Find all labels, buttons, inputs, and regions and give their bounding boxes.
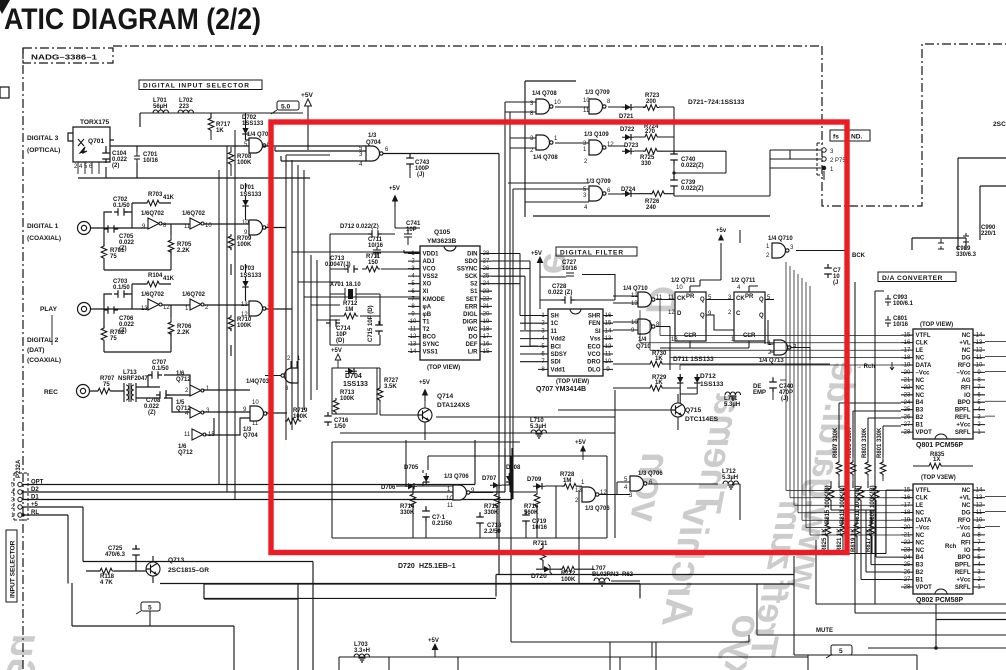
transistor Q714 DTA124XS — [418, 408, 432, 422]
svg-text:Q713: Q713 — [168, 557, 184, 564]
svg-text:(COAXIAL): (COAXIAL) — [27, 235, 61, 242]
svg-text:13: 13 — [631, 301, 638, 307]
svg-text:NC: NC — [916, 378, 925, 384]
svg-text:41K: 41K — [163, 195, 175, 201]
svg-text:11: 11 — [252, 421, 259, 427]
svg-text:+5V: +5V — [301, 92, 314, 99]
svg-text:X701 18.10: X701 18.10 — [330, 282, 361, 288]
wire optical row — [106, 113, 249, 178]
wire horizontal feeders to Q705 — [286, 155, 420, 320]
svg-text:Vdd1: Vdd1 — [551, 367, 566, 373]
svg-text:EMP: EMP — [753, 390, 766, 396]
svg-text:+VL: +VL — [959, 496, 971, 502]
svg-text:B3: B3 — [916, 563, 924, 569]
svg-text:(TOP VIEW): (TOP VIEW) — [920, 322, 953, 328]
svg-text:XO: XO — [423, 282, 432, 288]
svg-text:+VL: +VL — [959, 341, 971, 347]
svg-text:41K: 41K — [163, 276, 175, 282]
svg-text:DIGITAL 1: DIGITAL 1 — [27, 223, 59, 230]
svg-text:(D): (D) — [336, 338, 344, 344]
svg-text:330/6.3: 330/6.3 — [956, 252, 977, 258]
svg-text:D706: D706 — [381, 485, 396, 491]
svg-text:+5V: +5V — [531, 251, 542, 257]
svg-text:10: 10 — [242, 220, 249, 226]
svg-text:(J: (J — [833, 280, 838, 286]
svg-text:–Vcc: –Vcc — [916, 370, 931, 376]
svg-text:11: 11 — [447, 503, 454, 509]
svg-text:11: 11 — [668, 295, 675, 301]
IC Q707 YM3414B — [548, 309, 603, 376]
svg-text:1/3 Q706: 1/3 Q706 — [585, 506, 610, 512]
svg-text:D721: D721 — [619, 114, 634, 120]
gate 1/4 Q708 b — [536, 135, 553, 150]
svg-text:ERR: ERR — [465, 304, 478, 310]
wire crystal cluster — [330, 228, 420, 345]
svg-text:(J): (J) — [417, 172, 424, 178]
svg-text:SSYNC: SSYNC — [457, 267, 478, 273]
svg-text:1SS133: 1SS133 — [343, 381, 368, 388]
svg-text:SDSY: SDSY — [551, 352, 567, 358]
svg-text:2.2K: 2.2K — [177, 330, 190, 336]
connector pin 3 D1 — [18, 497, 22, 501]
svg-text:2.2K: 2.2K — [177, 248, 190, 254]
svg-text:+5V: +5V — [575, 440, 586, 446]
label fs ND boxes — [830, 130, 847, 141]
svg-text:BPO: BPO — [957, 555, 970, 561]
svg-text:CLR: CLR — [743, 333, 756, 339]
svg-text:1/3 Q709: 1/3 Q709 — [585, 90, 610, 96]
svg-text:B1: B1 — [916, 578, 924, 584]
svg-text:R807 330K: R807 330K — [833, 427, 839, 458]
svg-text:BCI: BCI — [551, 344, 562, 350]
svg-text:12: 12 — [163, 305, 170, 311]
svg-text:B4: B4 — [916, 555, 924, 561]
gate 1/3 Q704 b — [250, 406, 267, 421]
wire vertical bus group A — [219, 130, 235, 500]
svg-text:BCO: BCO — [423, 335, 437, 341]
wire D/A box outline — [855, 282, 1006, 613]
svg-text:+5V: +5V — [419, 380, 430, 386]
svg-text:Q801 PCM56P: Q801 PCM56P — [916, 442, 963, 449]
svg-text:BPFL: BPFL — [955, 408, 971, 414]
svg-text:Q: Q — [700, 313, 705, 319]
svg-text:AG: AG — [962, 533, 971, 539]
svg-text:1C: 1C — [551, 321, 559, 327]
svg-text:VSS2: VSS2 — [423, 274, 439, 280]
svg-text:C: C — [736, 311, 741, 317]
svg-text:D: D — [677, 311, 682, 317]
svg-text:24: 24 — [904, 555, 911, 561]
svg-text:150: 150 — [368, 260, 379, 266]
svg-text:5.3µH: 5.3µH — [722, 475, 738, 481]
svg-text:D/A CONVERTER: D/A CONVERTER — [882, 275, 943, 282]
svg-text:D712 0.022(Z): D712 0.022(Z) — [340, 224, 379, 230]
svg-text:Q704: Q704 — [366, 140, 381, 146]
gate 1/4 Q703 b — [249, 220, 266, 235]
Q802 pin stubs — [901, 490, 985, 587]
section label DIGITAL FILTER — [556, 247, 637, 256]
wire to P752 — [770, 150, 824, 196]
connector J DIGITAL1 RCA — [78, 222, 91, 235]
svg-text:10: 10 — [631, 320, 638, 326]
svg-text:DTC114ES: DTC114ES — [685, 416, 719, 423]
svg-text:Q710: Q710 — [636, 344, 651, 350]
svg-text:0.022 (Z): 0.022 (Z) — [548, 290, 572, 296]
svg-text:DIGITAL 2: DIGITAL 2 — [27, 337, 59, 344]
svg-text:Q707 YM3414B: Q707 YM3414B — [536, 386, 586, 393]
svg-text:10/16: 10/16 — [562, 266, 578, 272]
svg-text:(OPTICAL): (OPTICAL) — [27, 147, 60, 154]
board name box NADG-3386-1 — [23, 48, 113, 63]
svg-text:ATIC DIAGRAM (2/2): ATIC DIAGRAM (2/2) — [4, 3, 261, 36]
svg-text:1/2 Q711: 1/2 Q711 — [731, 278, 756, 284]
svg-text:11: 11 — [551, 329, 558, 335]
svg-text:Q712: Q712 — [178, 450, 193, 456]
svg-text:INPUT SELECTOR: INPUT SELECTOR — [10, 540, 17, 598]
svg-text:Vss: Vss — [590, 337, 601, 343]
svg-text:IO: IO — [964, 393, 971, 399]
svg-text:DG: DG — [962, 511, 971, 517]
svg-text:0.1/50: 0.1/50 — [113, 285, 130, 291]
svg-text:D703: D703 — [240, 266, 255, 272]
svg-text:1/6Q702: 1/6Q702 — [182, 211, 206, 217]
svg-text:SDO: SDO — [464, 259, 477, 265]
svg-text:RFI: RFI — [961, 540, 971, 546]
svg-text:BCK: BCK — [852, 253, 866, 259]
svg-text:10: 10 — [676, 285, 683, 291]
svg-text:Q714: Q714 — [437, 393, 453, 400]
svg-text:D705: D705 — [404, 465, 419, 471]
connector pin 5 OPT — [18, 482, 22, 486]
svg-text:P232A: P232A — [16, 459, 22, 478]
svg-text:D708: D708 — [506, 465, 521, 471]
svg-text:SYNC: SYNC — [423, 342, 440, 348]
svg-text:NC: NC — [962, 503, 971, 509]
svg-text:CK: CK — [677, 296, 686, 302]
svg-text:10/16: 10/16 — [368, 243, 384, 249]
connector stub box at left edge — [0, 87, 9, 98]
svg-text:(2): (2) — [112, 163, 119, 169]
svg-text:100/6.1: 100/6.1 — [893, 301, 914, 307]
connector pin 2 +5 — [18, 505, 22, 509]
svg-text:2 4 5 6: 2 4 5 6 — [74, 164, 93, 170]
svg-text:R104: R104 — [148, 273, 163, 279]
svg-text:3.3»H: 3.3»H — [354, 648, 370, 654]
wire long horizontal under optical — [78, 177, 310, 179]
diode D712 a — [694, 374, 700, 386]
frame border dash-dot top — [113, 45, 822, 47]
section label INPUT SELECTOR vertical — [6, 530, 17, 602]
svg-text:0.1/50: 0.1/50 — [113, 203, 130, 209]
svg-text:5.0: 5.0 — [281, 104, 290, 111]
junction dot bottom right — [934, 646, 938, 650]
svg-text:φA: φA — [423, 304, 432, 310]
svg-text:23: 23 — [483, 289, 490, 295]
svg-text:FEN: FEN — [589, 321, 601, 327]
svg-text:Q802 PCM58P: Q802 PCM58P — [916, 597, 963, 604]
diode D711 a — [677, 374, 683, 386]
svg-text:ADJ: ADJ — [423, 259, 435, 265]
diode D704 1SS133 with box — [332, 368, 377, 414]
svg-text:VPOT: VPOT — [916, 430, 933, 436]
Q707 pin stubs — [538, 316, 613, 370]
connector J PLAY RCA — [78, 303, 91, 316]
svg-text:Q715: Q715 — [685, 407, 701, 414]
svg-text:(TOP VIEW): (TOP VIEW) — [556, 379, 589, 385]
wire Q801 right stubs — [985, 342, 1006, 527]
svg-text:12: 12 — [668, 310, 675, 316]
svg-text:NC: NC — [962, 348, 971, 354]
svg-text:SCK: SCK — [465, 274, 478, 280]
connector pin 1 RL — [18, 513, 22, 517]
svg-text:C715 10P (D): C715 10P (D) — [368, 305, 374, 342]
wire digital1 row — [90, 183, 249, 275]
svg-text:Q105: Q105 — [434, 229, 450, 236]
svg-text:B2: B2 — [916, 415, 924, 421]
svg-text:VPOT: VPOT — [916, 585, 933, 591]
svg-text:NC: NC — [962, 488, 971, 494]
wire q715 — [558, 394, 678, 430]
svg-text:T2: T2 — [423, 327, 431, 333]
svg-text:(COAXIAL): (COAXIAL) — [27, 357, 61, 364]
IC op-amp DAC Q802 PCM56P — [913, 484, 973, 594]
svg-text:100K: 100K — [561, 577, 576, 583]
svg-text:B2: B2 — [916, 570, 924, 576]
svg-text:1/4 Q710: 1/4 Q710 — [768, 236, 793, 242]
svg-text:NC: NC — [916, 540, 925, 546]
Q801 pin stubs — [901, 335, 985, 432]
svg-text:SI: SI — [595, 329, 601, 335]
svg-text:RFI: RFI — [961, 385, 971, 391]
svg-text:470/6.3: 470/6.3 — [105, 552, 126, 558]
svg-text:1/2 Q711: 1/2 Q711 — [671, 278, 696, 284]
svg-text:AG: AG — [962, 378, 971, 384]
section label D/A CONVERTER — [878, 272, 956, 282]
svg-text:IO: IO — [964, 548, 971, 554]
transistor Q715 DTC114ES — [671, 403, 685, 417]
svg-text:DRO: DRO — [587, 360, 601, 366]
svg-text:75: 75 — [110, 336, 117, 342]
svg-text:R803 330K: R803 330K — [862, 427, 868, 458]
wire vertical bus to banks — [780, 380, 901, 535]
svg-text:1SS133: 1SS133 — [240, 273, 262, 279]
svg-text:1/3: 1/3 — [368, 133, 377, 139]
svg-text:Q712: Q712 — [176, 377, 191, 383]
svg-text:1/4Q703: 1/4Q703 — [246, 379, 270, 385]
svg-text:100K: 100K — [237, 242, 252, 248]
svg-text:DIN: DIN — [467, 252, 477, 258]
connector J REC RCA — [77, 385, 90, 398]
highlight red rectangle — [271, 122, 847, 553]
svg-text:4 7K: 4 7K — [100, 580, 113, 586]
svg-text:B3: B3 — [916, 408, 924, 414]
svg-text:Q: Q — [700, 297, 705, 303]
svg-text:D721~724:1SS133: D721~724:1SS133 — [688, 99, 745, 106]
svg-text:SHR: SHR — [588, 314, 601, 320]
connector P752 — [817, 143, 823, 175]
svg-text:D707: D707 — [482, 476, 497, 482]
svg-text:1/3 Q109: 1/3 Q109 — [584, 132, 609, 138]
svg-text:(DAT): (DAT) — [27, 347, 44, 354]
svg-text:BPFL: BPFL — [955, 563, 971, 569]
svg-text:NC: NC — [916, 385, 925, 391]
svg-text:1SS133: 1SS133 — [240, 192, 262, 198]
svg-text:VCO: VCO — [423, 267, 436, 273]
svg-text:CLK: CLK — [916, 341, 929, 347]
svg-text:+Vcc: +Vcc — [956, 423, 971, 429]
svg-text:NC: NC — [916, 511, 925, 517]
svg-text:1/6Q702: 1/6Q702 — [141, 292, 165, 298]
svg-text:1M: 1M — [345, 307, 353, 313]
svg-text:NC: NC — [916, 533, 925, 539]
svg-text:REFL: REFL — [955, 570, 971, 576]
svg-text:100K: 100K — [293, 414, 308, 420]
svg-text:SET: SET — [466, 297, 478, 303]
svg-text:1/6Q702: 1/6Q702 — [141, 211, 165, 217]
wire input select rows — [22, 485, 512, 516]
svg-text:KMODE: KMODE — [423, 297, 445, 303]
svg-text:PR: PR — [686, 294, 695, 300]
svg-text:Q712: Q712 — [176, 406, 191, 412]
svg-text:11: 11 — [656, 295, 663, 301]
svg-text:CK: CK — [736, 296, 745, 302]
svg-text:5.3µH: 5.3µH — [724, 402, 740, 408]
svg-text:SDI: SDI — [551, 360, 561, 366]
inverter 1/6 Q712 c — [192, 429, 206, 440]
svg-text:YM3623B: YM3623B — [427, 238, 457, 245]
svg-text:10/16: 10/16 — [143, 158, 159, 164]
svg-text:240: 240 — [646, 205, 657, 211]
svg-text:LE: LE — [916, 348, 924, 354]
svg-text:WC: WC — [468, 327, 479, 333]
svg-text:CLK: CLK — [916, 496, 929, 502]
svg-text:R703: R703 — [148, 192, 163, 198]
svg-text:1K: 1K — [216, 128, 224, 134]
svg-text:XI: XI — [423, 289, 429, 295]
wire bottom box left — [339, 540, 1006, 670]
junction dot C740 — [672, 171, 675, 174]
svg-text:R721: R721 — [533, 541, 548, 547]
svg-text:ECO: ECO — [587, 344, 600, 350]
svg-text:1/4 Q708: 1/4 Q708 — [533, 155, 558, 161]
svg-text:13: 13 — [671, 337, 678, 343]
wire q706 cluster box — [332, 442, 607, 642]
svg-text:SRFL: SRFL — [955, 430, 971, 436]
frame border dash-dot left — [22, 48, 24, 670]
svg-text:Rch: Rch — [945, 544, 957, 550]
svg-text:LE: LE — [916, 503, 924, 509]
svg-text:1/4 Q710: 1/4 Q710 — [623, 286, 648, 292]
svg-text:NC: NC — [916, 548, 925, 554]
svg-text:DIGR: DIGR — [463, 319, 479, 325]
wire rec row — [89, 228, 292, 436]
connector pin 4 D2 — [18, 490, 22, 494]
svg-text:TORX175: TORX175 — [80, 119, 110, 126]
svg-text:10/16: 10/16 — [893, 322, 909, 328]
svg-text:5: 5 — [839, 648, 843, 655]
svg-text:NC: NC — [962, 333, 971, 339]
wire d720 row — [536, 569, 640, 581]
wire r729/r730 — [613, 364, 830, 404]
svg-text:SH: SH — [551, 314, 559, 320]
gate 1/3 Q706 b — [582, 487, 599, 502]
svg-text:Q704: Q704 — [243, 433, 258, 439]
wire df caps — [540, 273, 615, 300]
svg-text:NSRF2047: NSRF2047 — [118, 376, 148, 382]
svg-text:–Vcc: –Vcc — [956, 370, 971, 376]
svg-text:Vdd2: Vdd2 — [551, 337, 566, 343]
svg-text:DTA124XS: DTA124XS — [437, 402, 470, 409]
svg-text:Q701: Q701 — [88, 138, 104, 145]
wire play row — [90, 264, 249, 356]
svg-text:CLR: CLR — [684, 333, 697, 339]
wire Q801 left feeders — [640, 300, 901, 370]
svg-text:0.21/50: 0.21/50 — [432, 521, 453, 527]
svg-text:S2: S2 — [470, 282, 478, 288]
svg-text:(TOP VIEW): (TOP VIEW) — [427, 365, 460, 371]
svg-text:12: 12 — [600, 490, 607, 496]
svg-text:1/50: 1/50 — [334, 424, 346, 430]
wire q713 gate out — [768, 251, 846, 361]
frame border right section around connector — [822, 44, 1006, 206]
svg-text:L/R: L/R — [468, 350, 478, 356]
svg-text:–Vcc: –Vcc — [956, 526, 971, 532]
svg-text:ND.: ND. — [851, 134, 863, 141]
wire top rail to L701/L702 — [140, 112, 303, 114]
svg-text:Q: Q — [759, 313, 764, 319]
svg-text:Q: Q — [759, 297, 764, 303]
wire bottom long runs — [72, 562, 1006, 670]
svg-text:RFO: RFO — [958, 518, 971, 524]
svg-text:75: 75 — [110, 254, 117, 260]
svg-text:NC: NC — [916, 393, 925, 399]
svg-text:D720 HZ5.1EB–1: D720 HZ5.1EB–1 — [398, 563, 456, 570]
svg-text:DEF: DEF — [466, 342, 478, 348]
svg-text:100K: 100K — [237, 323, 252, 329]
svg-text:B1: B1 — [916, 423, 924, 429]
svg-text:D709: D709 — [527, 477, 542, 483]
svg-text:R811 100K(B): R811 100K(B) — [855, 486, 861, 524]
svg-text:0.022(Z): 0.022(Z) — [681, 186, 704, 192]
node 5.0 callout box — [277, 101, 299, 110]
svg-text:VTFL: VTFL — [916, 333, 931, 339]
svg-text:NC: NC — [916, 356, 925, 362]
wire q704a inputs — [263, 146, 499, 575]
wire bottom verticals into lower edge — [150, 611, 458, 670]
svg-text:10/16: 10/16 — [532, 525, 548, 531]
Q705 pin stubs — [408, 254, 492, 352]
svg-text:3.5K: 3.5K — [384, 384, 397, 390]
junction dot RL — [21, 513, 25, 517]
svg-text:11: 11 — [583, 108, 590, 114]
svg-text:T1: T1 — [423, 319, 431, 325]
svg-text:PR: PR — [745, 294, 754, 300]
svg-text:DIGITAL 3: DIGITAL 3 — [27, 135, 59, 142]
connector P232A — [14, 473, 28, 520]
svg-text:1/3 Q706: 1/3 Q706 — [638, 471, 663, 477]
svg-text:(TOP V3EW): (TOP V3EW) — [921, 475, 956, 481]
svg-text:D722: D722 — [620, 127, 635, 133]
svg-text:0.022(Z): 0.022(Z) — [681, 163, 704, 169]
svg-text:100K: 100K — [340, 396, 355, 402]
svg-text:B4: B4 — [916, 400, 924, 406]
wire q713 — [83, 545, 313, 583]
svg-text:1C: 1C — [446, 496, 454, 502]
wire q714 — [338, 368, 425, 440]
svg-text:2SC1815–GR: 2SC1815–GR — [168, 567, 209, 574]
wire Q707 feeders — [492, 254, 538, 362]
svg-text:VTFL: VTFL — [916, 488, 931, 494]
